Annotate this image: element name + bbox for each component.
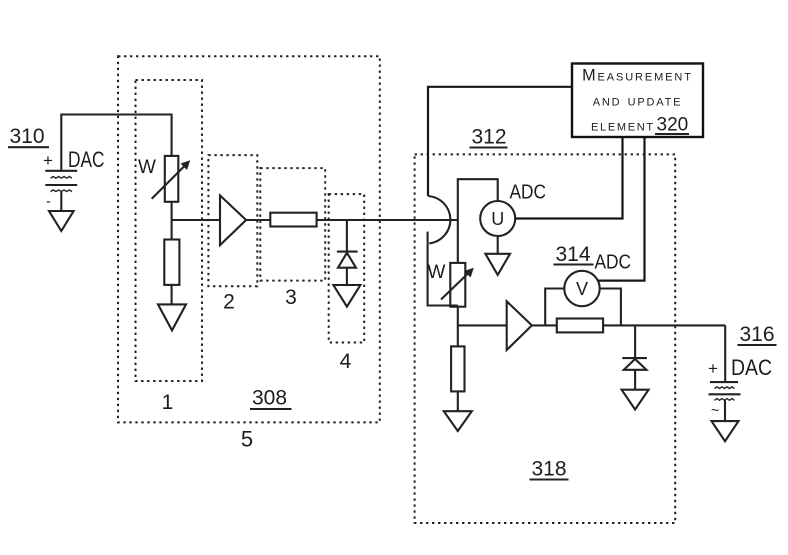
- ground (diode 318): [622, 390, 649, 410]
- dashed box 5 (outer): [118, 56, 380, 422]
- svg-text:318: 318: [532, 458, 567, 481]
- svg-text:3: 3: [285, 286, 297, 309]
- measurement and update element 320 box: [572, 64, 703, 138]
- probe contact (half circle): [428, 196, 450, 243]
- svg-text:W: W: [428, 262, 446, 283]
- resistor (box 3): [270, 213, 316, 227]
- svg-text:1: 1: [162, 391, 174, 414]
- ADC U meter: [480, 201, 515, 236]
- dashed box 3: [260, 168, 325, 281]
- svg-text:+: +: [43, 151, 53, 170]
- svg-text:DAC: DAC: [731, 355, 772, 380]
- ground (ADC U): [497, 236, 499, 254]
- op-amp buffer (box 2): [220, 195, 246, 245]
- ground (DAC 310): [49, 211, 74, 231]
- wire main (pot1 to amp 2): [172, 219, 220, 221]
- diode (318): [634, 325, 636, 358]
- svg-text:W: W: [138, 157, 156, 178]
- wire pot2 to node: [457, 306, 459, 347]
- svg-text:DAC: DAC: [68, 147, 105, 172]
- resistor (318 mid): [557, 319, 603, 333]
- svg-text:V: V: [576, 279, 588, 299]
- svg-text:2: 2: [223, 291, 235, 314]
- wire amp to resistor 3: [246, 219, 270, 221]
- svg-text:U: U: [491, 209, 504, 229]
- dashed box 1: [136, 80, 203, 381]
- svg-text:314: 314: [556, 243, 591, 266]
- wire V meter loop right: [600, 289, 621, 326]
- svg-text:312: 312: [472, 126, 507, 149]
- svg-text:ADC: ADC: [510, 182, 547, 204]
- wire V meter loop left: [545, 289, 564, 326]
- dashed box 4: [329, 194, 365, 342]
- wire ADC U to element 320: [515, 137, 622, 218]
- svg-text:~: ~: [711, 402, 719, 418]
- svg-text:308: 308: [252, 387, 287, 410]
- ground (box 4): [333, 285, 360, 307]
- diode (box 4): [346, 220, 348, 252]
- svg-text:+: +: [708, 359, 718, 378]
- wire amp to resistor (318): [532, 324, 557, 326]
- wire ADC V to element 320: [598, 137, 645, 280]
- wire pot1 to node: [171, 202, 173, 240]
- svg-text:and update: and update: [593, 92, 683, 110]
- wire probe to pot2 bottom: [428, 232, 458, 306]
- resistor (box 1): [164, 240, 179, 285]
- svg-text:Measurement: Measurement: [582, 67, 693, 85]
- svg-text:ADC: ADC: [595, 252, 632, 274]
- svg-text:5: 5: [241, 427, 253, 452]
- svg-text:316: 316: [740, 323, 775, 346]
- wire pot2 top to ADC U: [458, 179, 498, 263]
- svg-text:4: 4: [340, 350, 352, 373]
- wire probe to measurement element 320: [428, 87, 573, 196]
- wire resistor 3 to probe contact: [317, 219, 458, 221]
- svg-text:310: 310: [10, 125, 45, 148]
- ground (DAC 316): [712, 421, 739, 441]
- ground (box 1): [158, 304, 186, 330]
- svg-text:element: element: [591, 117, 655, 135]
- op-amp (318): [507, 301, 532, 350]
- resistor (318 left): [451, 346, 464, 391]
- ground (318 left): [444, 411, 472, 431]
- wire main (pot2 to amp 318): [458, 324, 507, 326]
- wire DAC310 to potentiometer 1: [61, 115, 171, 171]
- wire main right: [603, 324, 725, 326]
- dashed box 2: [208, 155, 257, 286]
- dashed box 318: [415, 154, 676, 523]
- svg-text:320: 320: [657, 115, 689, 136]
- ADC V meter: [564, 271, 599, 306]
- svg-text:-: -: [46, 193, 51, 210]
